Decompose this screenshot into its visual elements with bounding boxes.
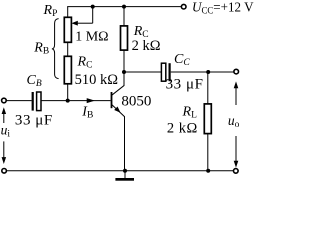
ground stub bbox=[124, 171, 126, 178]
transistor Q1 collector slant bbox=[112, 85, 125, 95]
transistor Q1 emitter arrowhead bbox=[114, 107, 120, 113]
output terminal bottom bbox=[234, 169, 239, 174]
svg-text:8050: 8050 bbox=[121, 93, 151, 109]
potentiometer RP body bbox=[64, 17, 71, 42]
node RL bottom junction dot bbox=[206, 169, 210, 173]
wire CB to base bbox=[41, 100, 110, 102]
wire CC to output terminal bbox=[171, 71, 234, 73]
uo arrow lower bbox=[235, 136, 237, 161]
svg-text:UCC=+12 V: UCC=+12 V bbox=[192, 0, 254, 16]
wire collector node down bbox=[123, 72, 125, 86]
input terminal top bbox=[2, 98, 7, 103]
ground bar bbox=[115, 178, 134, 181]
capacitor CC left plate bbox=[161, 63, 165, 81]
node wiper junction dot bbox=[91, 5, 95, 9]
svg-text:1 MΩ: 1 MΩ bbox=[75, 30, 108, 45]
wire wiper horizontal bbox=[77, 22, 93, 24]
capacitor CB right plate bbox=[37, 92, 41, 111]
resistor RL body bbox=[204, 104, 211, 134]
brace RB bbox=[52, 19, 59, 79]
node RL top junction dot bbox=[206, 70, 210, 74]
svg-text:33 μF: 33 μF bbox=[15, 112, 53, 128]
wire RB2 to base node bbox=[67, 84, 69, 101]
svg-text:33 μF: 33 μF bbox=[166, 76, 204, 92]
wire pot to RB2 bbox=[67, 42, 69, 56]
node top rail collector junction dot bbox=[122, 5, 126, 9]
svg-text:510 kΩ: 510 kΩ bbox=[75, 72, 119, 88]
node base junction dot bbox=[66, 99, 70, 103]
resistor RB2 510k body bbox=[64, 56, 71, 84]
wire collector to CC bbox=[124, 71, 161, 73]
wire RL bottom bbox=[207, 134, 209, 171]
wire RL top bbox=[207, 72, 209, 104]
supply terminal circle bbox=[181, 4, 186, 9]
input terminal bottom bbox=[2, 169, 7, 174]
node collector junction dot bbox=[122, 70, 126, 74]
capacitor CB left plate bbox=[32, 92, 34, 111]
wiper arrowhead bbox=[71, 21, 77, 26]
wire top rail bbox=[67, 6, 181, 8]
wire bottom rail bbox=[7, 170, 233, 172]
uo arrow upper bbox=[235, 88, 237, 105]
transistor Q1 emitter slant bbox=[112, 105, 125, 117]
wire rail to RC bbox=[123, 7, 125, 26]
capacitor CC right plate bbox=[169, 63, 171, 81]
transistor Q1 base bar bbox=[111, 92, 113, 108]
IB current arrowhead bbox=[87, 98, 95, 103]
wire pot top lead bbox=[67, 7, 69, 18]
svg-text:2 kΩ: 2 kΩ bbox=[167, 120, 198, 136]
wire input to CB bbox=[7, 100, 32, 102]
svg-text:2 kΩ: 2 kΩ bbox=[132, 38, 161, 54]
wire wiper vertical bbox=[92, 7, 94, 24]
resistor RC 2k body bbox=[121, 26, 128, 50]
ui arrow lower bbox=[3, 141, 5, 157]
output terminal top bbox=[234, 69, 239, 74]
wire RC to collector node bbox=[123, 50, 125, 72]
wire emitter down bbox=[124, 116, 126, 171]
ui arrow upper bbox=[3, 114, 5, 124]
node emitter ground junction dot bbox=[123, 169, 127, 173]
